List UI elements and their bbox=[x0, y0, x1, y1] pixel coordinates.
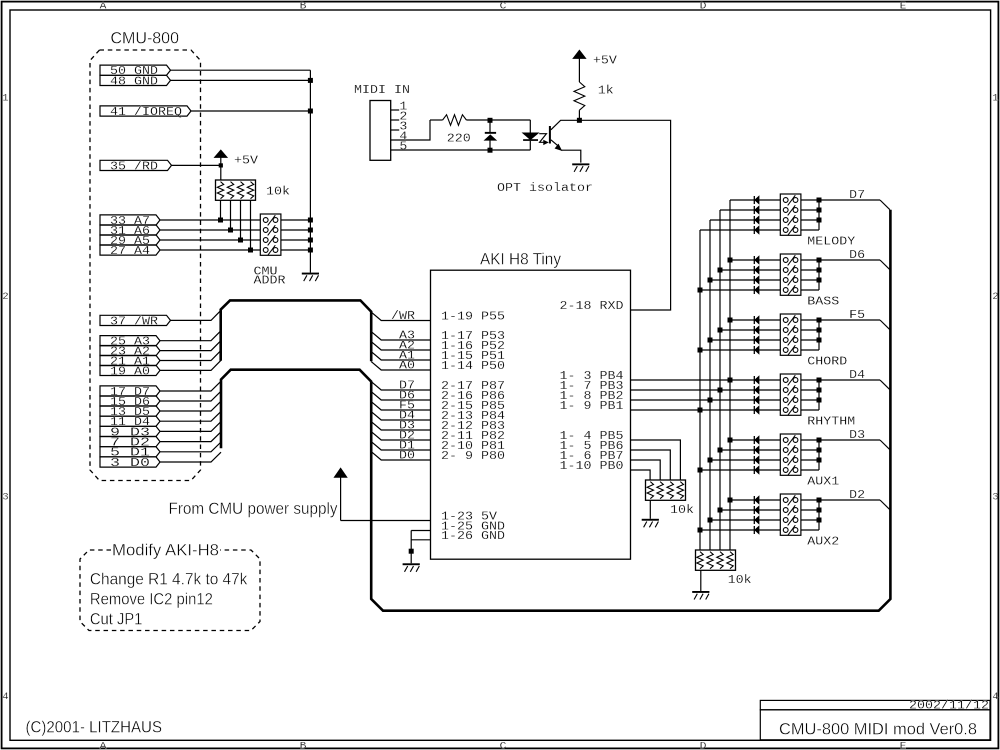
svg-text:4: 4 bbox=[2, 692, 8, 703]
svg-text:4: 4 bbox=[992, 692, 998, 703]
svg-text:MIDI IN: MIDI IN bbox=[354, 84, 410, 97]
svg-text:1-26 GND: 1-26 GND bbox=[441, 530, 505, 543]
svg-text:A: A bbox=[100, 741, 107, 750]
svg-text:27 A4: 27 A4 bbox=[110, 245, 150, 258]
svg-text:(C)2001- LITZHAUS: (C)2001- LITZHAUS bbox=[26, 717, 163, 736]
svg-text:48 GND: 48 GND bbox=[110, 75, 158, 88]
svg-text:A: A bbox=[100, 2, 107, 13]
svg-text:D0: D0 bbox=[399, 450, 415, 463]
svg-text:F5: F5 bbox=[849, 309, 865, 322]
svg-text:E: E bbox=[900, 2, 907, 13]
svg-text:AUX2: AUX2 bbox=[807, 536, 839, 549]
svg-text:BASS: BASS bbox=[807, 296, 839, 309]
svg-text:B: B bbox=[300, 741, 307, 750]
svg-text:D: D bbox=[700, 2, 707, 13]
svg-text:1- 9 PB1: 1- 9 PB1 bbox=[560, 400, 624, 413]
svg-text:D7: D7 bbox=[849, 189, 865, 202]
svg-text:3: 3 bbox=[992, 493, 998, 504]
svg-text:D4: D4 bbox=[849, 369, 865, 382]
svg-text:From CMU power supply: From CMU power supply bbox=[169, 499, 338, 518]
svg-text:AKI H8 Tiny: AKI H8 Tiny bbox=[480, 250, 561, 269]
svg-text:D2: D2 bbox=[849, 489, 865, 502]
svg-text:CMU-800: CMU-800 bbox=[111, 28, 180, 47]
svg-text:10k: 10k bbox=[266, 185, 290, 198]
svg-text:2002/11/12: 2002/11/12 bbox=[909, 700, 989, 713]
svg-text:Change R1 4.7k to 47k: Change R1 4.7k to 47k bbox=[90, 569, 248, 588]
svg-text:A0: A0 bbox=[399, 360, 415, 373]
svg-text:Remove IC2 pin12: Remove IC2 pin12 bbox=[90, 590, 213, 609]
svg-text:1: 1 bbox=[992, 94, 998, 105]
svg-text:MELODY: MELODY bbox=[807, 236, 855, 249]
svg-text:1-19 P55: 1-19 P55 bbox=[441, 311, 505, 324]
svg-text:3 D0: 3 D0 bbox=[110, 457, 150, 470]
svg-text:5: 5 bbox=[399, 141, 407, 154]
svg-text:D6: D6 bbox=[849, 249, 865, 262]
svg-text:2- 9 P80: 2- 9 P80 bbox=[441, 450, 505, 463]
svg-text:3: 3 bbox=[2, 493, 8, 504]
svg-text:+5V: +5V bbox=[234, 154, 258, 167]
svg-text:AUX1: AUX1 bbox=[807, 476, 839, 489]
svg-text:C: C bbox=[500, 741, 507, 750]
svg-text:41 /IOREQ: 41 /IOREQ bbox=[110, 106, 182, 119]
svg-text:220: 220 bbox=[447, 132, 471, 145]
svg-text:1-10 PB0: 1-10 PB0 bbox=[560, 460, 624, 473]
svg-text:CMU-800 MIDI mod Ver0.8: CMU-800 MIDI mod Ver0.8 bbox=[779, 720, 977, 739]
svg-text:1-14 P50: 1-14 P50 bbox=[441, 360, 505, 373]
svg-text:19 A0: 19 A0 bbox=[110, 365, 150, 378]
svg-text:E: E bbox=[900, 741, 907, 750]
svg-text:1: 1 bbox=[2, 94, 8, 105]
svg-text:OPT isolator: OPT isolator bbox=[497, 182, 593, 195]
svg-text:1k: 1k bbox=[598, 85, 614, 98]
svg-text:Cut JP1: Cut JP1 bbox=[90, 609, 142, 628]
svg-text:Modify AKI-H8: Modify AKI-H8 bbox=[112, 540, 219, 559]
svg-text:10k: 10k bbox=[728, 574, 752, 587]
svg-text:D: D bbox=[700, 741, 707, 750]
svg-text:37 /WR: 37 /WR bbox=[110, 315, 158, 328]
svg-text:2-18 RXD: 2-18 RXD bbox=[560, 300, 624, 313]
svg-text:2: 2 bbox=[2, 292, 8, 303]
svg-text:10k: 10k bbox=[670, 504, 694, 517]
svg-text:+5V: +5V bbox=[593, 54, 617, 67]
svg-text:2: 2 bbox=[992, 292, 998, 303]
svg-text:RHYTHM: RHYTHM bbox=[807, 416, 855, 429]
svg-text:D3: D3 bbox=[849, 429, 865, 442]
svg-text:CHORD: CHORD bbox=[807, 356, 847, 369]
svg-text:ADDR: ADDR bbox=[254, 275, 286, 288]
svg-text:C: C bbox=[500, 2, 507, 13]
svg-text:/WR: /WR bbox=[391, 310, 415, 323]
svg-text:B: B bbox=[300, 2, 307, 13]
svg-text:35 /RD: 35 /RD bbox=[110, 160, 158, 173]
